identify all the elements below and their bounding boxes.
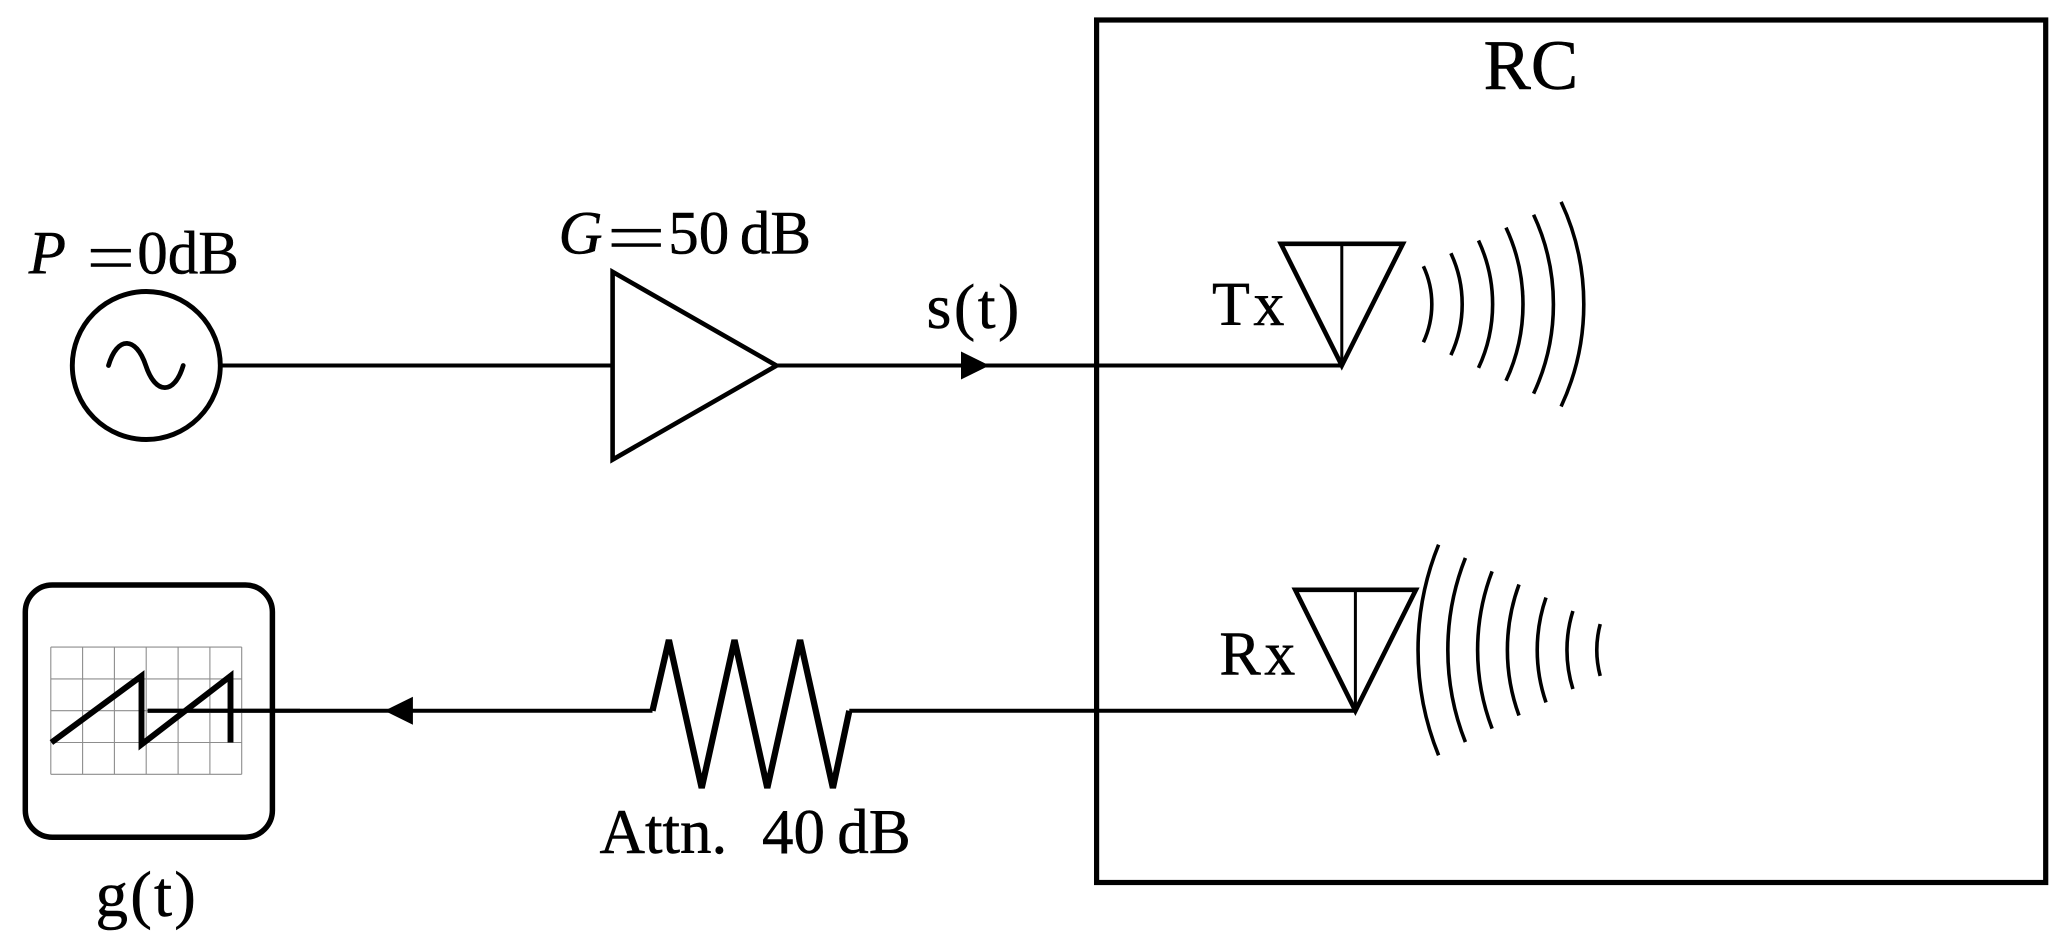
svg-text:0dB: 0dB	[137, 221, 239, 288]
svg-text:Rx: Rx	[1219, 621, 1298, 689]
reverberation chamber box RC	[1097, 20, 2046, 883]
Tx radiated waves (6 arcs)	[1423, 202, 1583, 407]
svg-text:Tx: Tx	[1212, 271, 1288, 339]
svg-text:dB: dB	[740, 201, 811, 268]
svg-text:Attn.: Attn.	[600, 797, 728, 867]
Tx antenna feed line	[1340, 244, 1343, 366]
wire segment into scope (over grid)	[148, 709, 301, 713]
svg-text:50: 50	[668, 201, 729, 268]
svg-text:dB: dB	[837, 797, 911, 867]
label G = 50 dB	[559, 201, 812, 268]
arrowhead on s(t) wire	[961, 352, 989, 380]
sine symbol inside source	[109, 343, 184, 387]
wire from amplifier output to Tx antenna	[777, 364, 1342, 368]
svg-text:40: 40	[762, 797, 825, 867]
Tx antenna triangle	[1281, 244, 1403, 366]
sawtooth waveform g(t) on scope	[51, 676, 230, 745]
Rx antenna feed line	[1354, 590, 1357, 711]
wire from source to amplifier input	[146, 364, 612, 368]
svg-text:G: G	[559, 201, 603, 268]
svg-text:g(t): g(t)	[96, 859, 199, 931]
svg-text:RC: RC	[1484, 27, 1579, 105]
Rx antenna triangle	[1295, 590, 1416, 711]
Rx incoming waves (7 arcs)	[1418, 545, 1600, 756]
svg-text:s(t): s(t)	[927, 271, 1022, 342]
oscilloscope box	[25, 585, 272, 837]
svg-text:P: P	[28, 221, 66, 288]
wire from Rx antenna to attenuator and scope	[148, 709, 653, 713]
label P = 0 dB	[28, 221, 239, 288]
amplifier U1 triangle G=50dB	[613, 272, 777, 460]
resistor R1 attenuator zigzag	[653, 640, 850, 788]
arrowhead on wire to scope (pointing left)	[385, 697, 413, 725]
label Attn. 40 dB	[600, 797, 911, 867]
oscilloscope grid	[51, 647, 242, 774]
source V1 (sine generator) circle	[72, 292, 220, 440]
